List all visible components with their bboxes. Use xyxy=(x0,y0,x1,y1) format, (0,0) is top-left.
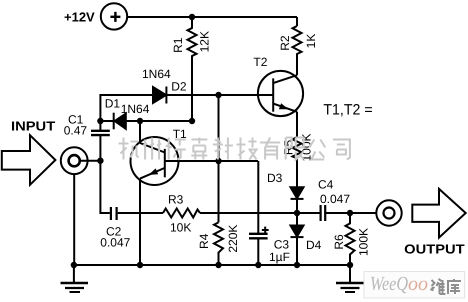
wire bottom ground rail xyxy=(74,264,350,266)
svg-text:10K: 10K xyxy=(170,220,191,234)
node rail R6 xyxy=(347,262,353,268)
text R1 xyxy=(171,37,185,53)
INPUT arrow xyxy=(2,135,56,185)
svg-text:INPUT: INPUT xyxy=(11,118,55,133)
ground right xyxy=(336,265,364,292)
text OUTPUT xyxy=(404,242,464,257)
svg-text:D2: D2 xyxy=(171,79,187,93)
text D3 xyxy=(267,171,283,185)
svg-text:WeeQ: WeeQ xyxy=(370,273,408,295)
text 10K xyxy=(170,220,191,234)
text +12V xyxy=(64,10,95,25)
svg-text:T1,T2 =: T1,T2 = xyxy=(323,102,372,119)
transistor T2 xyxy=(258,71,303,116)
text D1 xyxy=(105,97,121,111)
wire C3 branch xyxy=(257,161,259,265)
wire R2 drop from rail xyxy=(296,17,298,26)
node rail input xyxy=(71,262,77,268)
text 100K R6 xyxy=(357,228,371,256)
diode D3 xyxy=(291,187,304,213)
resistor R2 xyxy=(293,26,302,58)
svg-text:C4: C4 xyxy=(318,178,334,192)
svg-text:T2: T2 xyxy=(253,55,267,69)
svg-text:1µF: 1µF xyxy=(269,250,290,264)
svg-text:220K: 220K xyxy=(226,225,240,253)
wire input column down to C2 corner xyxy=(100,161,109,213)
wire R1 bottom to D1 row xyxy=(191,58,193,121)
text R6 xyxy=(332,234,346,250)
wire T2 collector to R2 xyxy=(296,58,298,75)
watermark center (pseudo CJK strokes) xyxy=(119,138,350,160)
text 0.47 xyxy=(64,124,88,138)
resistor R4 xyxy=(214,222,223,265)
svg-text:R3: R3 xyxy=(168,193,184,207)
power source +12V circle xyxy=(101,3,127,29)
svg-text:R6: R6 xyxy=(332,234,346,250)
text 12K xyxy=(198,31,212,52)
text 1K xyxy=(304,34,318,49)
capacitor C3 (electrolytic) xyxy=(249,227,269,239)
watermark WeeQoo text xyxy=(370,273,428,295)
svg-text:0.47: 0.47 xyxy=(64,124,88,138)
text R5 xyxy=(282,140,296,156)
svg-text:oo: oo xyxy=(408,273,428,295)
text 100K R5 xyxy=(300,133,314,161)
diode D2 xyxy=(153,87,166,104)
text T2 xyxy=(253,55,267,69)
svg-text:1N64: 1N64 xyxy=(142,67,171,81)
node R1 bottom / D1 anode xyxy=(189,118,195,124)
node top rail / R1 junction xyxy=(189,14,195,20)
node T1 base / bias tap xyxy=(215,158,221,164)
text 1uF xyxy=(269,250,290,264)
capacitor C1 xyxy=(91,121,110,161)
resistor R3 xyxy=(163,209,200,218)
resistor R6 xyxy=(346,213,355,265)
capacitor C4 xyxy=(321,205,377,221)
svg-text:D4: D4 xyxy=(306,238,322,252)
wire D1 row xyxy=(100,120,192,122)
text D2 xyxy=(171,79,187,93)
text C4 xyxy=(318,178,334,192)
wire T1 emitter down xyxy=(139,179,141,265)
wire T2 emitter down to R5 xyxy=(296,112,298,137)
text 0.047 C4 xyxy=(320,192,350,206)
text 0.047 C2 xyxy=(100,236,130,250)
text R3 xyxy=(168,193,184,207)
node input tap xyxy=(97,158,103,164)
svg-text:D1: D1 xyxy=(105,97,121,111)
text 220K xyxy=(226,225,240,253)
output terminal xyxy=(376,200,401,225)
diode D1 xyxy=(114,113,126,130)
svg-text:R4: R4 xyxy=(197,233,211,249)
svg-text:0.047: 0.047 xyxy=(100,236,130,250)
text T1 xyxy=(173,127,187,141)
wire R3 right to C4 xyxy=(200,212,321,214)
text R4 xyxy=(197,233,211,249)
wire bias column x=218.5 xyxy=(218,95,220,222)
text R2 xyxy=(278,35,292,51)
svg-text:1K: 1K xyxy=(304,34,318,49)
text T1,T2 = xyxy=(323,102,372,119)
ground left xyxy=(61,265,89,292)
text C2 xyxy=(106,225,122,239)
svg-text:D3: D3 xyxy=(267,171,283,185)
text C3 xyxy=(274,238,290,252)
node rail D4 xyxy=(294,262,300,268)
diode D4 xyxy=(291,213,304,265)
wire D2 cathode to T2 base xyxy=(166,94,273,96)
node D1 cathode / C1 top xyxy=(97,118,103,124)
wire T1 base row xyxy=(179,160,258,162)
node C4 / R6 / output junction xyxy=(347,210,353,216)
node rail R4 xyxy=(215,262,221,268)
svg-text:R1: R1 xyxy=(171,37,185,53)
text 1N64 lower xyxy=(121,102,150,116)
svg-text:R2: R2 xyxy=(278,35,292,51)
watermark weeqoo box xyxy=(364,272,465,299)
transistor T1 xyxy=(131,137,180,185)
node T1 collector tap xyxy=(137,118,143,124)
resistor R1 xyxy=(188,17,197,58)
text 1N64 upper xyxy=(142,67,171,81)
OUTPUT arrow xyxy=(412,189,465,238)
resistor R5 xyxy=(293,137,302,160)
node rail C3 xyxy=(255,262,261,268)
node D3/D4 junction xyxy=(294,210,300,216)
svg-text:OUTPUT: OUTPUT xyxy=(404,242,464,257)
svg-text:12K: 12K xyxy=(198,31,212,52)
svg-text:0.047: 0.047 xyxy=(320,192,350,206)
wire T1 collector up xyxy=(139,121,141,143)
wire R5 to D3 xyxy=(296,160,298,187)
watermark weiku glyphs xyxy=(431,279,462,294)
capacitor C2 xyxy=(111,207,163,220)
wire top rail +12V xyxy=(128,16,298,18)
node rail T1 emitter xyxy=(137,262,143,268)
svg-text:+12V: +12V xyxy=(64,10,95,25)
text C1 xyxy=(68,113,84,127)
svg-text:1N64: 1N64 xyxy=(121,102,150,116)
svg-text:100K: 100K xyxy=(357,228,371,256)
input terminal xyxy=(61,147,101,265)
text D4 xyxy=(306,238,322,252)
wire D2 row (D2 anode left segment + corner down) xyxy=(100,95,153,121)
node T2 base tap xyxy=(215,92,221,98)
text INPUT xyxy=(11,118,55,133)
